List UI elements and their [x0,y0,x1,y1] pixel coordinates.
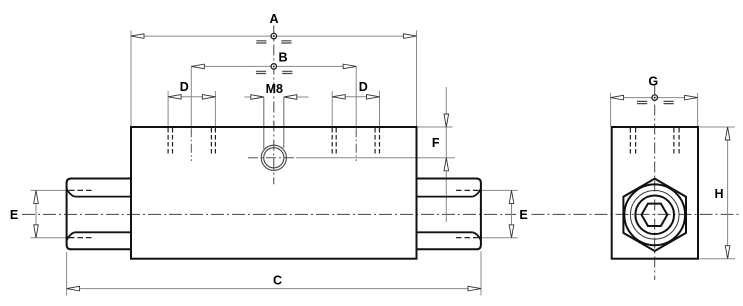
valve body front view [131,127,417,259]
dimension D right extension lines [332,91,379,127]
svg-text:C: C [273,274,282,288]
hex plug body circle [635,196,674,235]
right hex end thread hidden lines [456,190,481,237]
F extension line (top edge) [417,126,453,128]
svg-text:D: D [180,80,189,94]
dimension G line [611,95,698,100]
left hex end thread hidden lines [69,190,92,237]
dimension F line [444,87,449,222]
dimension D left line [168,95,215,100]
hex socket [642,204,668,226]
svg-text:G: G [648,75,658,89]
svg-text:E: E [10,208,18,222]
dimension H line [725,127,730,259]
side view body [612,127,698,259]
M8 port circle inner [264,148,284,168]
svg-text:E: E [519,208,527,222]
dimension D left extension lines [168,91,215,127]
side view hidden hole left [630,128,635,155]
dimension G symmetry marks [637,101,674,103]
hidden hole 1 (left group, left) [168,128,172,154]
M8 hole wall lines [264,97,284,149]
svg-text:A: A [269,12,278,26]
dimension H extension lines [700,127,736,259]
F extension line (hole center) [296,157,455,159]
dimension D right line [332,95,379,100]
hidden hole 4 (right group, right) [375,128,379,154]
left hex flat divider lines [75,197,131,233]
right hex chamfer arcs [473,189,481,241]
hex plug hexagon [623,179,686,251]
hex plug thread circle (thin) [630,191,679,240]
vertical centerline (side view) [654,86,656,281]
hex plug chamfer circle [624,184,685,245]
dimension B line [191,64,356,69]
dimension E right extension lines [481,190,518,237]
dimension E left line [34,190,39,237]
hidden hole 2 (left group, right) [211,128,215,154]
dimension M8 callout lines [244,95,308,100]
right hex end cap outline [417,179,481,250]
dimension B symmetry dot [271,64,276,69]
dimension G extension lines [611,93,698,127]
svg-text:H: H [714,187,723,201]
dimension C extension lines [67,252,481,296]
dimension B symmetry marks [256,71,293,73]
horizontal centerline (main axis) [22,213,741,215]
dimension B extension lines [191,66,356,126]
svg-text:B: B [278,51,287,65]
hole centerline through M8 port [248,157,296,159]
svg-text:M8: M8 [266,82,283,96]
dimension A line [131,34,417,39]
svg-text:F: F [432,136,440,150]
right hex flat divider lines [417,197,473,233]
svg-text:D: D [359,80,368,94]
left hex end cap outline [67,179,131,250]
left hex chamfer arcs [67,189,75,241]
dimension C line [67,286,481,291]
hidden hole 3 (right group, left) [332,128,336,154]
dimension E right line [509,190,514,237]
vertical centerline (front view M8 axis) [273,26,275,185]
hole group centerline stubs (B ends) [191,128,356,161]
dimension A extension lines [131,31,417,127]
M8 port circle outer [261,145,286,170]
dimension A symmetry marks [256,41,291,43]
dimension G symmetry dot [652,95,657,100]
dimension E left extension lines [31,190,67,237]
dimension A symmetry dot [271,33,276,38]
side view hidden hole right [674,128,679,155]
